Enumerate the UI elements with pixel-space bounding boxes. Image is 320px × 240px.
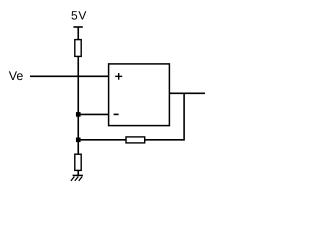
resistor R2 feedback — [126, 137, 145, 143]
wire node B to resistor R3 — [77, 140, 79, 155]
wire Ve to op-amp non-inverting input — [30, 75, 109, 77]
net label 5V — [71, 9, 87, 23]
node label Ve — [9, 69, 24, 83]
ground — [71, 175, 83, 181]
wire from R1 down through node A to node B — [77, 56, 79, 139]
wire node A to op-amp inverting input — [78, 113, 108, 115]
wire R3 to ground — [77, 170, 79, 175]
op-amp U1 minus input label — [114, 113, 119, 115]
junction node A — [76, 112, 81, 117]
op-amp U1 plus input label — [115, 73, 122, 80]
svg-text:Ve: Ve — [9, 69, 24, 83]
resistor R1 pull-up — [75, 40, 81, 57]
wire from 5V bar to resistor R1 — [77, 27, 79, 40]
power symbol 5V bar — [73, 26, 82, 28]
svg-text:5V: 5V — [71, 9, 87, 23]
feedback wire horizontal — [78, 139, 184, 141]
feedback wire vertical — [183, 93, 185, 140]
junction node B — [76, 138, 81, 143]
output wire from op-amp — [169, 92, 205, 94]
op-amp U1 body — [109, 64, 170, 126]
resistor R3 to ground — [75, 154, 81, 170]
